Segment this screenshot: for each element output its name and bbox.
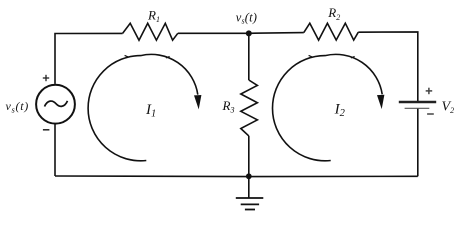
wire top-right segment — [358, 32, 418, 101]
wire left-lower segment — [54, 125, 56, 177]
wire bottom segment — [55, 175, 418, 178]
resistor R2 — [304, 23, 359, 40]
wire middle lower segment — [248, 136, 250, 176]
wire middle upper segment — [248, 33, 250, 80]
minus sign (source) — [43, 129, 50, 131]
svg-text:R3: R3 — [222, 98, 235, 115]
plus sign (battery) — [426, 88, 433, 95]
svg-text:I2: I2 — [334, 101, 346, 119]
resistor R1 — [123, 23, 178, 40]
svg-text:R1: R1 — [147, 7, 160, 24]
mesh current I2 arrow — [273, 54, 383, 160]
svg-text:vs(t): vs(t) — [6, 99, 29, 114]
mesh current I1 arrow — [88, 54, 198, 160]
wire right-lower segment — [417, 108, 419, 176]
battery V2 — [399, 102, 436, 108]
wire top-middle segment — [178, 32, 304, 35]
ground — [236, 176, 263, 209]
svg-text:vs(t): vs(t) — [236, 11, 257, 26]
svg-text:V2: V2 — [442, 99, 455, 114]
svg-text:I1: I1 — [145, 102, 156, 120]
wire top-left segment — [55, 33, 123, 84]
plus sign (source) — [43, 75, 49, 81]
node vs(t) junction dot — [246, 30, 252, 36]
minus sign (battery) — [427, 113, 434, 115]
resistor R3 — [241, 80, 258, 136]
junction dot (bottom node) — [246, 173, 252, 179]
svg-text:R2: R2 — [327, 5, 340, 22]
AC voltage source vs(t) — [36, 85, 75, 124]
